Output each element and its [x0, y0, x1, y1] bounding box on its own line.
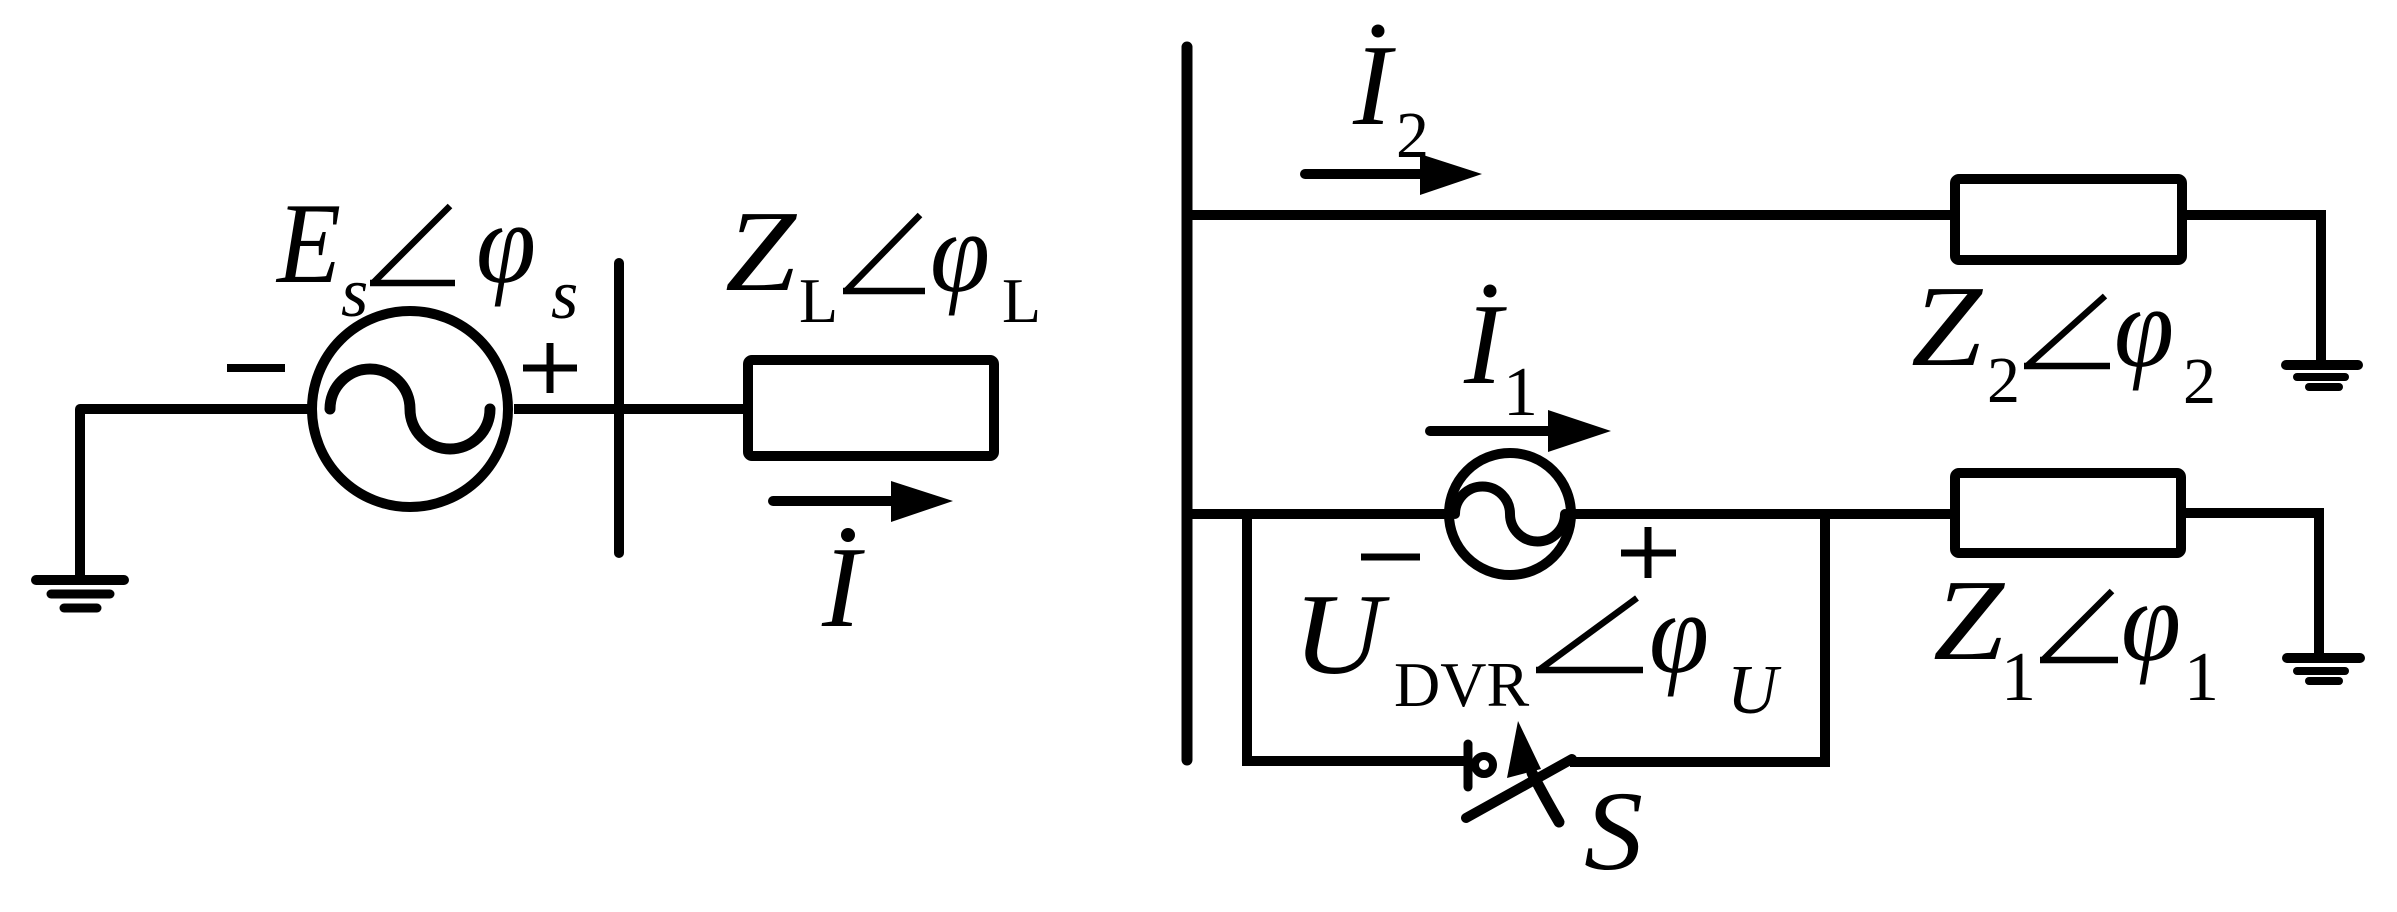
svg-text:φ: φ — [1649, 570, 1709, 697]
label Es — [275, 180, 578, 334]
switch S arrow — [1507, 721, 1559, 822]
wire bypass right — [1570, 514, 1825, 762]
resistor Z1 — [1955, 473, 2181, 553]
ground — [36, 409, 124, 608]
svg-text:2: 2 — [2183, 345, 2216, 418]
svg-text:1: 1 — [1503, 354, 1538, 431]
switch S blade — [1466, 759, 1572, 818]
wire — [1187, 210, 1955, 220]
svg-text:1: 1 — [2184, 639, 2219, 716]
wire — [2182, 215, 2321, 360]
svg-text:Z: Z — [1911, 263, 1983, 390]
wire — [80, 404, 312, 414]
label Z2 — [1911, 263, 2216, 418]
plus sign — [523, 343, 577, 393]
svg-text:U: U — [1293, 571, 1391, 698]
ground — [2286, 365, 2358, 387]
svg-text:S: S — [1584, 769, 1643, 894]
svg-text:I: I — [821, 524, 865, 651]
svg-text:2: 2 — [1396, 99, 1429, 172]
svg-text:Z: Z — [725, 188, 797, 315]
label Z1 — [1933, 557, 2219, 716]
plus sign DVR — [1621, 527, 1676, 578]
svg-text:I: I — [1463, 281, 1507, 408]
svg-text:s: s — [551, 257, 578, 334]
label I2 — [1352, 22, 1429, 172]
label UDVR — [1293, 570, 1782, 729]
svg-text:DVR: DVR — [1394, 649, 1529, 720]
wire — [514, 404, 748, 414]
svg-text:I: I — [1352, 22, 1396, 149]
node bus2 — [1182, 47, 1193, 760]
arrow I — [773, 481, 953, 522]
svg-text:φ: φ — [930, 189, 990, 316]
wire bypass left — [1247, 514, 1464, 761]
arrow I2 — [1305, 154, 1482, 195]
wire — [1571, 509, 1955, 519]
arrow I1 — [1430, 410, 1611, 452]
svg-text:φ: φ — [2121, 558, 2181, 685]
svg-text:2: 2 — [1987, 344, 2020, 417]
node bus1 — [614, 263, 624, 553]
svg-text:L: L — [799, 265, 838, 336]
source UDVR — [1449, 453, 1571, 575]
source Es — [312, 311, 508, 507]
wire — [1187, 509, 1449, 519]
minus sign DVR — [1361, 554, 1420, 561]
svg-text:φ: φ — [476, 180, 536, 307]
wire — [2181, 513, 2319, 653]
label I — [821, 524, 865, 651]
svg-text:E: E — [275, 180, 341, 307]
svg-text:L: L — [1002, 265, 1041, 336]
switch S contact — [1468, 744, 1493, 787]
svg-text:U: U — [1727, 652, 1782, 729]
svg-text:Z: Z — [1933, 557, 2005, 684]
resistor Z2 — [1955, 179, 2182, 260]
label I1 — [1463, 281, 1538, 431]
svg-text:s: s — [341, 255, 368, 332]
minus sign — [227, 364, 285, 372]
ground — [2287, 658, 2360, 681]
label ZL — [725, 188, 1041, 336]
resistor ZL — [748, 360, 994, 456]
svg-text:φ: φ — [2114, 264, 2174, 391]
svg-text:1: 1 — [2001, 639, 2036, 716]
